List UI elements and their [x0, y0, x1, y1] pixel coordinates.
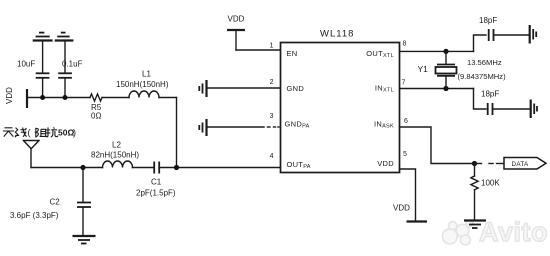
node junction DATA/100K [472, 161, 477, 166]
pin 6 label INASK [374, 118, 408, 130]
svg-text:4: 4 [270, 153, 274, 160]
pin 3 label GNDPA [270, 113, 310, 130]
resistor 100K [471, 164, 500, 220]
svg-text:WL118: WL118 [320, 29, 354, 40]
wire pin 8 to crystal node [400, 50, 474, 52]
capacitor C2 3.6pF [10, 168, 91, 237]
node junction cap 10uF [40, 95, 45, 100]
DATA flag [504, 158, 546, 170]
pin 1 label EN [270, 43, 298, 59]
wire corner down to C1 node [176, 98, 178, 168]
ground (inverted) above capacitor 0.1uF [55, 33, 74, 41]
wire pin 7 to crystal node [400, 88, 474, 90]
svg-text:10uF: 10uF [17, 60, 35, 69]
inductor L2 82nH [91, 141, 139, 168]
svg-text:GND: GND [287, 84, 305, 93]
svg-text:0Ω: 0Ω [91, 112, 101, 121]
ground right of top 18pF [530, 25, 537, 44]
svg-text:18pF: 18pF [481, 90, 499, 99]
wire pin 6 to DATA node [400, 127, 475, 164]
capacitor 0.1uF [58, 41, 82, 98]
ground at pin 2 [199, 80, 206, 97]
ground below 100K [464, 221, 486, 229]
VDD symbol bottom [393, 204, 427, 222]
svg-text:EN: EN [287, 49, 298, 58]
capacitor C1 2pF [136, 162, 176, 198]
svg-text:0.1uF: 0.1uF [62, 60, 83, 69]
svg-text:2pF(1.5pF): 2pF(1.5pF) [136, 189, 176, 198]
IC U1 WL118 [281, 29, 400, 173]
svg-text:2: 2 [270, 79, 274, 86]
crystal Y1 [418, 51, 457, 88]
VDD terminal left [5, 87, 27, 108]
svg-text:): ) [73, 128, 76, 138]
svg-text:(: ( [28, 128, 31, 138]
svg-text:VDD: VDD [228, 15, 245, 24]
antenna label "antenna (impedance 50ohm)" [3, 128, 27, 138]
watermark Avito logo circles [442, 220, 473, 245]
node crystal bottom [443, 86, 448, 91]
capacitor 18pF top [479, 16, 529, 41]
inductor L1 150nH [116, 70, 169, 98]
svg-text:3.6pF (3.3pF): 3.6pF (3.3pF) [10, 211, 59, 220]
wire VDD to pin 1 [236, 49, 281, 51]
ground at pin 3 [199, 119, 206, 136]
wire down to 18pF cap (bottom) [474, 89, 487, 110]
capacitor 18pF bottom [481, 90, 530, 116]
node junction antenna/C2 [80, 165, 85, 170]
ground right of bottom 18pF [531, 100, 537, 119]
node junction cap 0.1uF [63, 95, 68, 100]
wire antenna to node [31, 167, 103, 169]
pin 7 label INXTL [375, 80, 406, 94]
svg-text:C2: C2 [50, 198, 61, 207]
wire VDD rail to R5 [27, 97, 90, 99]
svg-text:Y1: Y1 [418, 64, 429, 74]
svg-text:L1: L1 [142, 70, 151, 79]
svg-text:VDD: VDD [5, 87, 14, 104]
pin 5 label VDD [377, 151, 407, 168]
svg-text:18pF: 18pF [479, 16, 497, 25]
antenna symbol [23, 141, 39, 168]
wire L1 to corner [159, 97, 177, 99]
wire up to 18pF cap (top) [474, 35, 487, 51]
svg-text:50Ω: 50Ω [58, 127, 74, 137]
ground below C2 [73, 236, 96, 244]
svg-text:5: 5 [403, 151, 407, 158]
resistor R5 0ohm [90, 94, 102, 121]
svg-text:3: 3 [270, 113, 274, 120]
svg-text:VDD: VDD [393, 204, 410, 213]
wire ground to pin 3 (dashed end) [207, 126, 280, 128]
svg-text:Avito: Avito [479, 217, 548, 247]
wire C1 to pin 4 [159, 167, 280, 169]
svg-text:100K: 100K [481, 179, 500, 188]
pin 8 label OUTXTL [366, 41, 406, 60]
VDD symbol top [227, 15, 245, 51]
svg-text:8: 8 [403, 41, 407, 48]
crystal frequency labels [458, 58, 507, 81]
wire pin 5 to VDD bottom [400, 169, 416, 221]
node junction C1/L1 [174, 165, 179, 170]
svg-text:6: 6 [404, 118, 408, 125]
ground (inverted) above capacitor 10uF [33, 33, 53, 41]
svg-text:7: 7 [402, 80, 406, 87]
wire ground to pin 2 [207, 87, 281, 89]
node crystal top [443, 49, 448, 54]
svg-text:1: 1 [270, 43, 274, 50]
svg-text:L2: L2 [112, 141, 121, 150]
svg-text:(9.84375MHz): (9.84375MHz) [458, 72, 507, 81]
svg-text:C1: C1 [151, 178, 162, 187]
wire R5 to L1 [102, 97, 129, 99]
wire L2 to C1 [133, 167, 155, 169]
svg-text:13.56MHz: 13.56MHz [467, 58, 502, 67]
svg-text:VDD: VDD [377, 159, 394, 168]
pin 4 label OUTPA [270, 153, 311, 170]
svg-text:DATA: DATA [512, 161, 530, 168]
svg-text:82nH(150nH): 82nH(150nH) [91, 151, 139, 160]
capacitor 10uF [17, 41, 49, 98]
svg-text:150nH(150nH): 150nH(150nH) [116, 80, 169, 89]
pin 2 label GND [270, 79, 305, 93]
wire node to DATA flag (broken) [475, 163, 505, 165]
